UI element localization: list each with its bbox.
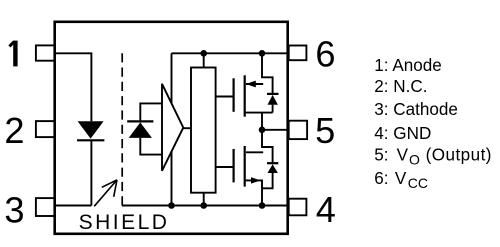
pin 6 xyxy=(289,46,307,61)
junction dot VCC-Q1 xyxy=(259,50,266,57)
LED D1 cathode bar xyxy=(77,139,104,141)
svg-text:6: 6 xyxy=(315,33,335,74)
junction dot VCC-driver xyxy=(200,50,207,57)
svg-text:4: 4 xyxy=(316,189,336,230)
pin 4 xyxy=(289,199,307,216)
wire pin1 to LED anode xyxy=(55,53,91,121)
body diode D3 anode lead xyxy=(272,105,274,113)
gate wire Q1 xyxy=(216,96,233,98)
pin 5 xyxy=(289,121,307,139)
body diode D3 bar xyxy=(267,93,279,95)
svg-text:4: GND: 4: GND xyxy=(374,124,431,143)
Q1 drain to VCC rail and body diode top xyxy=(262,53,273,93)
GND rail xyxy=(122,205,288,207)
wire LED cathode to pin3 node xyxy=(90,140,92,205)
Q1 source to output node xyxy=(261,113,263,130)
shield arrow xyxy=(94,180,117,206)
IC body xyxy=(55,22,288,234)
svg-text:1: Anode: 1: Anode xyxy=(374,56,442,75)
transistor Q1 channel bar xyxy=(244,75,246,116)
op-amp U1 xyxy=(162,84,183,171)
driver VCC stub xyxy=(203,53,205,67)
pin 1 number xyxy=(9,41,15,67)
svg-text:5: VO (Output): 5: VO (Output) xyxy=(374,146,492,168)
svg-text:2: N.C.: 2: N.C. xyxy=(374,77,427,96)
amp VCC feed xyxy=(171,53,173,103)
svg-text:3: 3 xyxy=(4,190,24,231)
junction dot GND-driver xyxy=(200,202,207,209)
body diode D4 triangle xyxy=(268,164,278,173)
body diode D4 anode lead xyxy=(262,173,273,188)
Q2 source line to GND xyxy=(245,180,262,205)
Q1 drain stub xyxy=(246,83,263,85)
Q1 drain arrow xyxy=(246,81,256,88)
photodiode triangle xyxy=(129,122,152,137)
svg-text:3: Cathode: 3: Cathode xyxy=(374,100,458,119)
junction dot output node xyxy=(259,127,266,134)
amp GND feed xyxy=(171,151,173,206)
body diode D4 bar xyxy=(267,162,278,164)
pin 3 xyxy=(36,198,55,216)
photodiode cathode wire xyxy=(140,103,162,120)
VCC rail xyxy=(172,52,288,54)
photodiode anode wire xyxy=(140,138,162,155)
Q2 drain stub xyxy=(246,151,263,153)
driver GND stub xyxy=(203,193,205,206)
svg-text:6: VCC: 6: VCC xyxy=(374,169,428,191)
transistor Q2 channel bar xyxy=(244,146,246,187)
photodiode cathode bar xyxy=(127,120,153,122)
wire output node to pin 5 xyxy=(262,129,288,131)
svg-text:2: 2 xyxy=(4,110,24,151)
gate wire Q2 xyxy=(216,166,233,168)
Q1 source line xyxy=(245,112,273,114)
amp output wire xyxy=(183,127,191,129)
pin 2 xyxy=(36,121,55,137)
shield dashed line xyxy=(121,53,123,205)
junction dot GND-amp xyxy=(168,202,175,209)
body diode D3 triangle xyxy=(268,95,278,105)
driver block U2 xyxy=(191,68,216,193)
junction dot GND-Q2 xyxy=(259,202,266,209)
svg-text:SHIELD: SHIELD xyxy=(79,211,170,234)
wire pin 3 xyxy=(55,205,91,207)
transistor Q1 gate bar xyxy=(233,78,235,112)
Q2 source arrow xyxy=(251,177,261,183)
LED D1 triangle xyxy=(78,121,104,138)
Q2 drain from output node and body diode top xyxy=(262,130,273,163)
transistor Q2 gate bar xyxy=(233,149,235,182)
svg-text:5: 5 xyxy=(315,110,335,151)
pin 1 xyxy=(36,45,55,60)
